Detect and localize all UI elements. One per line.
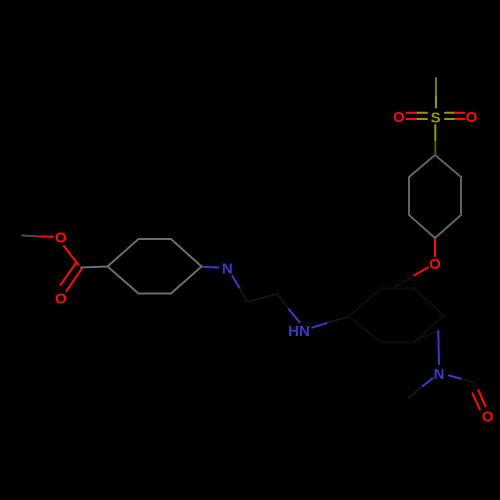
svg-text:O: O: [482, 409, 494, 426]
wire methyl ester CH3-O bond (carbon half): [22, 236, 40, 237]
wire ring-S bond (sulfur half): [434, 125, 436, 140]
wire NH-C7 bond (nitrogen half): [313, 323, 329, 328]
svg-text:N: N: [434, 366, 445, 383]
svg-text:O: O: [429, 256, 441, 273]
wire ring-C3 bond (dark): [416, 331, 438, 340]
wire O1-C9 bond: [64, 246, 79, 265]
wire S-CH3 bond (sulfur half): [435, 95, 437, 108]
wire O3-C6 bond (carbon half): [394, 275, 415, 287]
wire C8a-C8b bond: [247, 294, 277, 302]
wire N2-C4 methyl bond (carbon half): [409, 387, 422, 398]
wire C3-N2 bond: [437, 331, 440, 364]
wire C8b-NH bond (carbon half): [277, 294, 289, 309]
central benzene ring (very dark): [349, 289, 444, 343]
wire S=O left double bond: [416, 113, 427, 119]
svg-text:O: O: [466, 109, 478, 126]
wire NH-C7 bond (carbon half): [328, 317, 349, 323]
svg-text:N: N: [222, 261, 233, 278]
svg-text:HN: HN: [288, 323, 310, 340]
sulfonyl benzene ring: [409, 155, 461, 238]
wire N2-C5 bond: [449, 375, 462, 379]
svg-text:O: O: [393, 109, 405, 126]
wire C9 to ring bond: [81, 267, 108, 268]
left benzene ring: [108, 239, 202, 294]
svg-text:S: S: [431, 109, 441, 126]
wire S=O right double bond: [445, 113, 455, 119]
wire N2-C4 methyl bond (nitrogen half): [422, 379, 433, 388]
wire O3-C6 bond (oxygen half): [415, 268, 429, 276]
wire ring-S bond (carbon half): [434, 140, 436, 154]
wire ring-N1 bond: [203, 266, 219, 269]
svg-text:O: O: [55, 291, 67, 308]
wire methyl ester CH3-O bond (oxygen half): [40, 236, 53, 238]
wire O3 to sulfonyl-ring bond: [434, 240, 436, 257]
svg-text:O: O: [55, 230, 67, 247]
wire N2-C5 bond (carbon half): [462, 379, 474, 383]
wire C9=O2 double bond: [61, 263, 83, 291]
wire S-CH3 bond (carbon half): [435, 78, 437, 95]
wire C5=O4 double bond: [473, 390, 486, 409]
wire N1=C8a bond (blue half): [233, 276, 241, 289]
wire N1=C8a bond (carbon half): [240, 289, 247, 302]
wire C8b-NH bond (nitrogen half): [289, 310, 300, 323]
